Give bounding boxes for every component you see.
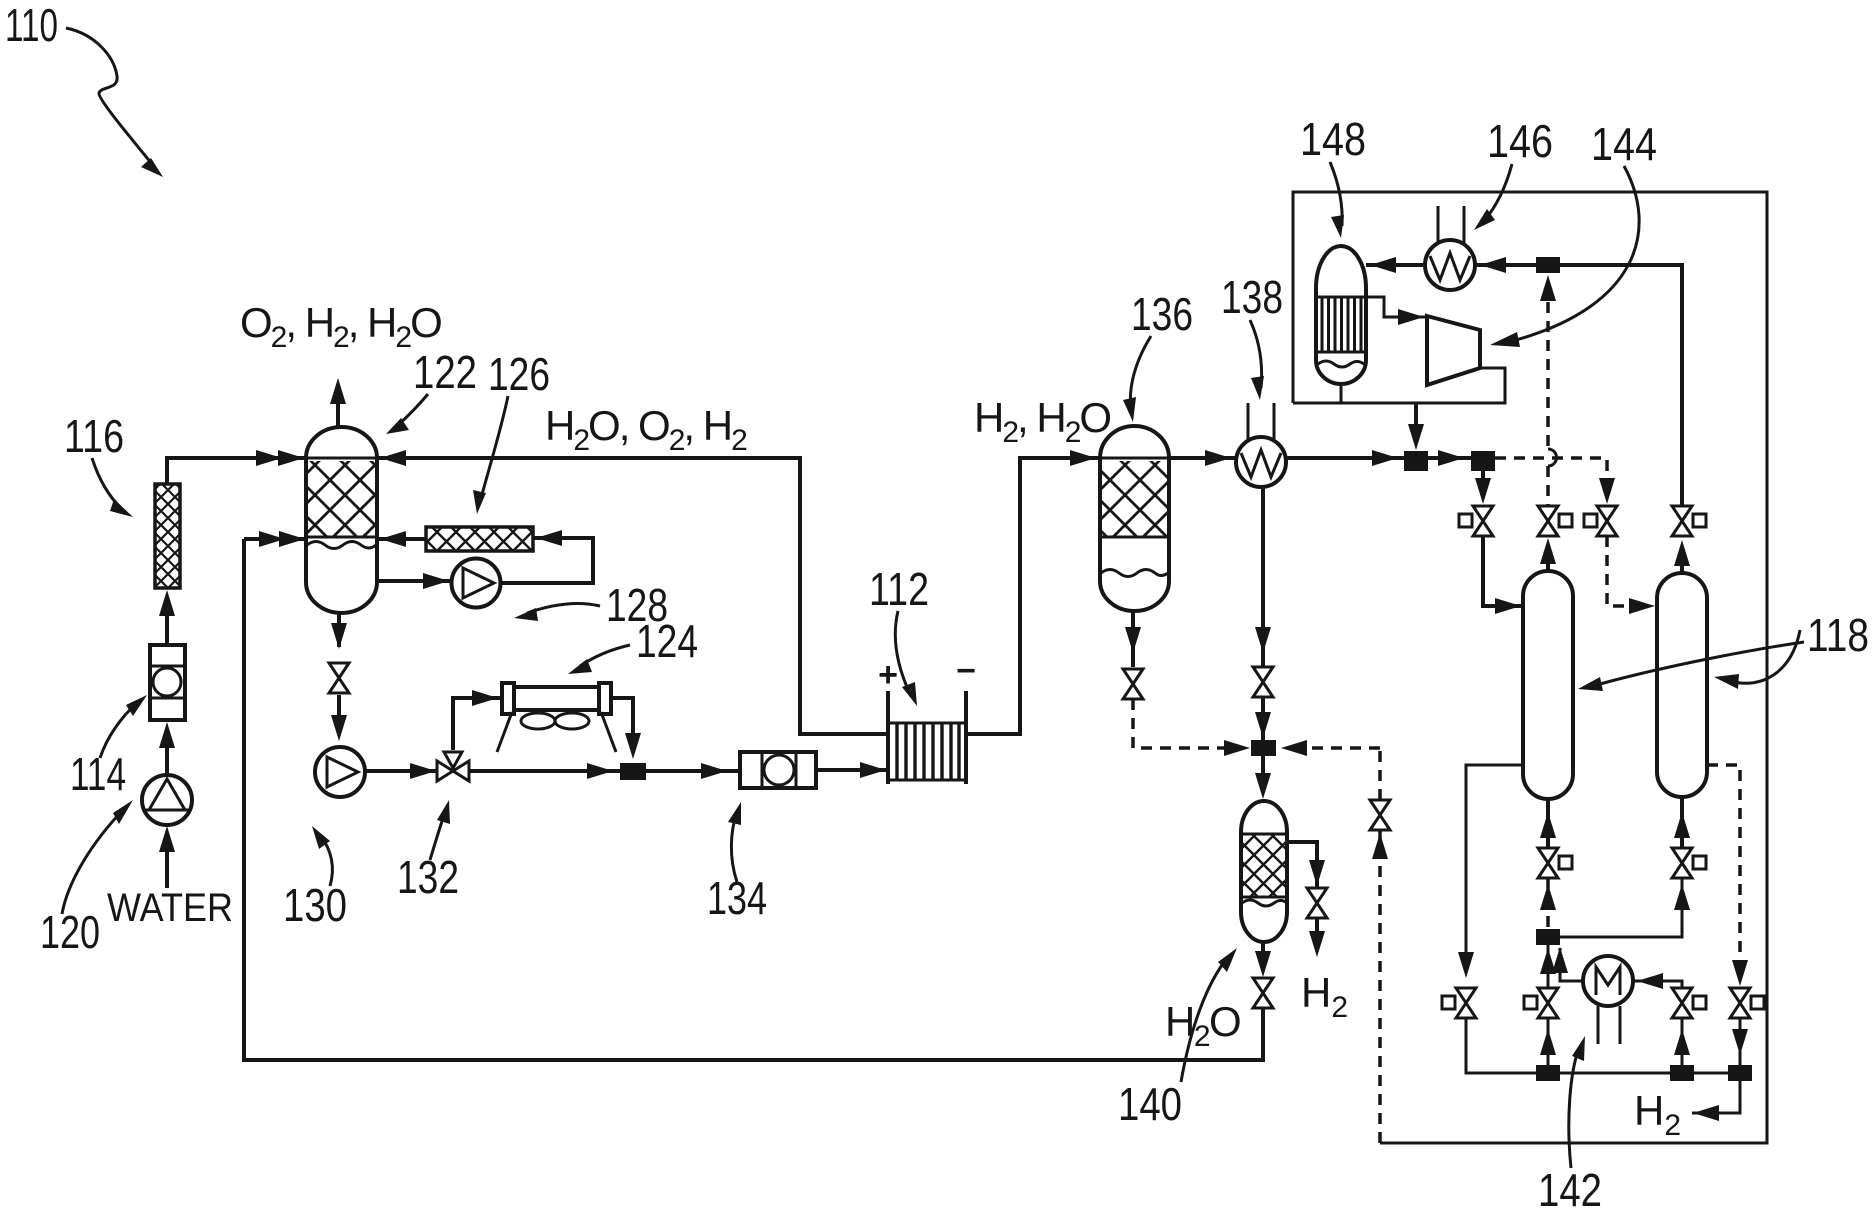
wire: pump 130 to valve 132 xyxy=(365,769,437,773)
valve below vessel 136 xyxy=(1123,669,1143,699)
leader arrow for 128 xyxy=(527,603,600,613)
leader arrow for 148 xyxy=(1330,162,1342,226)
wire: pump 120 to meter 114 xyxy=(165,748,169,775)
vessel 136 (hydrogen separator) xyxy=(1100,426,1169,611)
svg-text:116: 116 xyxy=(64,410,124,462)
valve V10 xyxy=(1730,988,1750,1018)
junction S6 xyxy=(1536,1065,1560,1081)
wire: junction S3 to heater 146 xyxy=(1475,263,1536,267)
leader arrow for 144 xyxy=(1516,166,1639,340)
wire: manifold S7 to S8 xyxy=(1694,1072,1728,1075)
valve below vessel 122 xyxy=(329,663,349,693)
wire: valve 132 to junction xyxy=(469,769,620,773)
leader arrow for 142 xyxy=(1569,1048,1579,1168)
valve V8 xyxy=(1538,988,1558,1018)
electrolyzer 112 stack xyxy=(888,691,966,784)
valve V4 xyxy=(1672,506,1692,536)
valve V2 xyxy=(1538,506,1558,536)
valve on dashed riser xyxy=(1370,800,1390,830)
wire: vessel 122 bottom outlet xyxy=(337,613,341,647)
svg-text:132: 132 xyxy=(397,851,459,903)
svg-text:140: 140 xyxy=(1118,1078,1182,1130)
valve V6 xyxy=(1672,848,1692,878)
leader arrow for 146 xyxy=(1484,164,1512,221)
wire: heater 138 bottom drain xyxy=(1261,487,1265,667)
wire: vessel 118a lower side port to purge leg xyxy=(1466,765,1523,972)
wire: junction S1 to junction S2 xyxy=(1428,456,1471,460)
wire: product riser from valve V4 to junction S3 xyxy=(1560,265,1682,506)
leader arrow for 136 xyxy=(1130,336,1151,410)
wire: valve V5 dashed down to junction S5 xyxy=(1546,878,1550,929)
wire: recycle return into vessel 122 (from line 140 loop) xyxy=(244,537,306,541)
svg-text:130: 130 xyxy=(283,879,347,931)
wire: valve V8 down to junction S6 xyxy=(1547,1018,1550,1065)
svg-text:122: 122 xyxy=(413,346,477,398)
air cooler 124 tube xyxy=(514,687,599,710)
wire: header branch down to junction S1 xyxy=(1414,403,1418,428)
valve below vessel 140 xyxy=(1253,978,1273,1008)
junction S7 xyxy=(1670,1065,1694,1081)
leader arrows for 118 xyxy=(1600,642,1804,684)
electric heater 138 xyxy=(1236,437,1286,487)
wire: valve down to junction S4 xyxy=(1261,697,1265,740)
wire: vessel 136 bottom drain xyxy=(1131,611,1135,667)
wire: vessel 136 to heater 138 xyxy=(1169,456,1237,460)
vessel 148 (condenser/boiler) xyxy=(1316,246,1366,384)
leader arrow for 126 xyxy=(480,396,508,502)
vessel 122 (gas separator) xyxy=(306,427,377,613)
leader arrow for 120 xyxy=(62,809,124,914)
wire: air cooler 124 outlet down to main line xyxy=(611,698,633,735)
wire: filter 116 up and right to vessel 122 xyxy=(167,458,306,484)
wire: valve V7 down to bottom manifold xyxy=(1466,1018,1537,1073)
wire: vessel 118b top to valve V4 xyxy=(1680,560,1684,573)
wire: vessel 122 to pump 128 xyxy=(377,579,451,583)
wire: valve to pump 130 xyxy=(337,695,341,715)
valve V1 xyxy=(1473,506,1493,536)
three-way valve 132 xyxy=(437,752,469,781)
leader arrow for 112 xyxy=(895,611,910,694)
leader arrow for 132 xyxy=(430,812,445,860)
wire: junction S5 down to valve V8 xyxy=(1547,945,1550,988)
vent wire from 122 top xyxy=(336,400,340,427)
wire: vessel 140 side outlet to H2 valve xyxy=(1287,842,1317,888)
valve V7 on left purge leg xyxy=(1456,988,1476,1018)
heater 126 (hatched) xyxy=(426,527,533,551)
wire: heater 138 to junction S1 xyxy=(1286,456,1404,460)
flow meter 134 xyxy=(740,752,816,788)
wire: junction S8 down to H2 product outlet xyxy=(1692,1081,1740,1113)
leader arrow for 134 xyxy=(731,812,737,882)
wire: flow meter 134 to electrolyzer 112 xyxy=(816,768,888,772)
wire: electrolyzer cathode side up to vessel 136 (H2, H2O) xyxy=(966,458,1100,734)
wire: bottom manifold S6 to S7 xyxy=(1560,1072,1670,1075)
vessel 140 (water knockout) xyxy=(1241,801,1287,942)
wire: recirculation loop around right section (top, right, bottom) xyxy=(1293,192,1767,1143)
wire: turbine exhaust header at y403 xyxy=(1293,368,1505,403)
svg-text:114: 114 xyxy=(70,748,126,800)
wire: junction S7 up to valve V9 xyxy=(1681,1018,1684,1065)
wire: valve 132 up to air cooler 124 xyxy=(453,698,502,750)
wire: bottom recycle loop from vessel 140 to vessel 122 xyxy=(244,539,1263,1060)
valve below heater 138 xyxy=(1253,667,1273,697)
wire: dashed purge line to valve row (from junction S2) xyxy=(1495,458,1607,480)
svg-text:+: + xyxy=(878,656,898,694)
svg-text:112: 112 xyxy=(869,563,929,615)
svg-text:−: − xyxy=(956,652,976,690)
junction S4 xyxy=(1251,740,1276,756)
wire: electrolyzer return line to vessel 122 (H2O,O2,H2) xyxy=(377,458,888,734)
svg-text:136: 136 xyxy=(1131,288,1193,340)
leader arrow for 114 xyxy=(100,702,138,758)
pump 130 xyxy=(315,747,365,797)
wire: valve V6 down and left to junction S5 xyxy=(1560,878,1682,937)
svg-text:118: 118 xyxy=(1807,609,1869,661)
wire: valve V1 down into vessel 118a side xyxy=(1483,536,1523,606)
wire: vessel 118a bottom to valve V5 xyxy=(1546,799,1550,848)
liquid level wave in 136 xyxy=(1101,570,1168,577)
wire: water inlet to pump 120 xyxy=(165,852,169,888)
wire: vessel 118b bottom to valve V6 xyxy=(1680,797,1684,848)
wire: compressor 142 discharge up to junction S5 xyxy=(1560,948,1583,981)
wire: heater 126 to vessel 122 xyxy=(377,537,426,541)
wire: meter 114 to filter 116 xyxy=(165,616,169,645)
wire: vessel 140 bottom drain xyxy=(1261,942,1265,952)
junction S5 xyxy=(1536,929,1560,945)
junction S1 xyxy=(1404,451,1428,471)
electric heater 146 xyxy=(1425,240,1475,290)
wire: valve V3 dashed down into vessel 118b side xyxy=(1607,536,1650,606)
turbine 144 xyxy=(1427,316,1480,385)
wire: pump 128 up and back to heater 126 xyxy=(500,538,593,583)
adsorber vessel 118b xyxy=(1657,573,1707,797)
air cooler 124 legs xyxy=(497,712,616,752)
junction S2 xyxy=(1471,451,1495,471)
junction S3 xyxy=(1536,257,1560,273)
wire: compressor 142 suction from valve V9 xyxy=(1633,981,1682,988)
wire: vessel 148 bottom drain to header xyxy=(1340,384,1343,403)
svg-text:146: 146 xyxy=(1487,115,1553,167)
leader arrow for 116 xyxy=(92,458,123,510)
valve V5 xyxy=(1538,848,1558,878)
svg-text:126: 126 xyxy=(488,348,550,400)
svg-text:110: 110 xyxy=(5,0,58,51)
wire: junction S2 down to valve V1 xyxy=(1481,471,1485,480)
liquid level wave in 122 xyxy=(307,542,376,549)
pump 120 xyxy=(142,775,192,825)
wire: vessel 118a top to valve V2 xyxy=(1546,558,1550,571)
wire: vessel 148 to turbine 144 inlet xyxy=(1366,297,1427,317)
leader arrow for 138 xyxy=(1250,320,1262,388)
svg-text:H2, H2O: H2, H2O xyxy=(974,394,1110,449)
svg-text:124: 124 xyxy=(636,615,698,667)
wire: junction S4 into vessel 140 xyxy=(1261,756,1265,780)
junction at cooler outlet xyxy=(620,763,646,780)
flow meter 114 xyxy=(150,645,185,720)
wire: dashed return from right box to junction S4 xyxy=(1290,746,1380,750)
svg-text:WATER: WATER xyxy=(107,886,233,930)
wire: junction to flow meter 134 xyxy=(646,769,740,773)
wire: valve V10 down to junction S8 xyxy=(1739,1018,1742,1065)
wire: dashed riser from loop bottom to junction S4 xyxy=(1378,748,1382,1143)
compressor 142 xyxy=(1583,956,1633,1006)
valve on vessel 140 H2 outlet xyxy=(1307,888,1327,918)
adsorber vessel 118a xyxy=(1523,571,1573,799)
wire: valve to junction S4 (dashed) xyxy=(1133,699,1234,748)
wire: heater 146 to vessel 148 xyxy=(1366,263,1425,267)
svg-text:142: 142 xyxy=(1538,1164,1602,1208)
leader arrow for 122 xyxy=(396,394,428,427)
leader arrow for 110 xyxy=(66,28,152,164)
junction S8 xyxy=(1728,1065,1752,1081)
valve V9 xyxy=(1672,988,1692,1018)
leader arrow for 140 xyxy=(1181,957,1228,1082)
leader arrow for 130 xyxy=(320,835,332,886)
leader arrow for 124 xyxy=(580,645,630,666)
wire: dashed riser from valve V2 up to junction S3 with crossover hop xyxy=(1546,302,1550,506)
svg-text:138: 138 xyxy=(1221,271,1283,323)
filter 116 xyxy=(155,484,180,588)
wire: valve to H2 vent xyxy=(1315,918,1319,932)
valve V3 xyxy=(1597,506,1617,536)
svg-text:120: 120 xyxy=(40,906,100,958)
air cooler 124 fan blades xyxy=(521,713,555,729)
pump 128 xyxy=(452,559,501,608)
svg-text:148: 148 xyxy=(1300,113,1366,165)
wire: vessel 118b lower side port dashed to valve V10 xyxy=(1707,765,1740,968)
svg-text:144: 144 xyxy=(1591,118,1657,170)
